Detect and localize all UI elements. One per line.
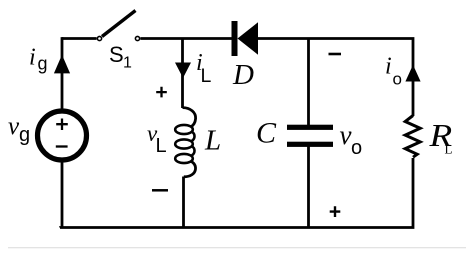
- resistor R_L zigzag: [405, 116, 420, 158]
- v_L minus sign: [152, 189, 168, 192]
- diode D triangle: [238, 22, 259, 54]
- arrow i_g: [54, 55, 70, 74]
- wire top rail right segment: [258, 37, 413, 116]
- inductor L coil: [183, 108, 196, 128]
- switch S1 left terminal: [97, 36, 101, 40]
- svg-text:o: o: [351, 137, 362, 159]
- v_o plus sign: [330, 206, 341, 217]
- switch S1 blade: [102, 11, 136, 37]
- wire capacitor branch lower: [307, 147, 310, 228]
- svg-text:L: L: [201, 65, 212, 87]
- source plus sign: [56, 119, 68, 131]
- wire bottom rail: [60, 158, 414, 228]
- arrow i_o: [405, 65, 420, 82]
- svg-text:D: D: [232, 59, 254, 91]
- arrow i_L: [175, 63, 191, 79]
- svg-text:i: i: [385, 54, 392, 80]
- svg-text:g: g: [19, 124, 30, 146]
- source minus sign: [56, 145, 68, 147]
- capacitor C top plate: [287, 125, 333, 130]
- v_o minus sign: [329, 53, 342, 56]
- wire left branch upper: [61, 37, 64, 111]
- wire top rail middle segment: [140, 37, 231, 40]
- v_L plus sign: [156, 87, 167, 98]
- wire capacitor branch upper: [307, 39, 310, 126]
- wire left branch lower: [61, 160, 64, 228]
- capacitor C bottom plate: [287, 142, 333, 147]
- svg-text:i: i: [29, 45, 36, 71]
- svg-text:g: g: [38, 54, 48, 74]
- svg-text:o: o: [393, 70, 402, 89]
- svg-text:C: C: [256, 117, 277, 150]
- svg-text:1: 1: [123, 55, 132, 72]
- svg-text:L: L: [445, 142, 453, 157]
- wire inductor branch lower: [182, 177, 185, 228]
- svg-text:L: L: [204, 125, 221, 157]
- switch S1 right terminal: [135, 36, 139, 40]
- svg-text:L: L: [156, 135, 167, 157]
- source v_g circle U1: [38, 111, 87, 160]
- wire inductor branch upper: [181, 39, 184, 109]
- wire top rail left segment: [62, 37, 97, 40]
- svg-text:S: S: [109, 42, 124, 67]
- svg-text:v: v: [340, 120, 352, 150]
- diode D cathode bar: [232, 21, 238, 56]
